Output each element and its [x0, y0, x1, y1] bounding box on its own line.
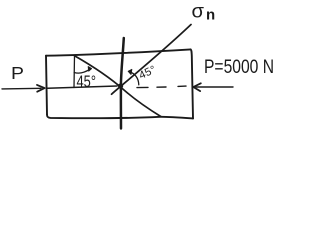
svg-text:45°: 45° [77, 73, 97, 91]
svg-text:P=5000 N: P=5000 N [204, 57, 274, 78]
svg-text:σ: σ [192, 2, 205, 23]
svg-text:P: P [11, 63, 24, 83]
svg-text:45°: 45° [137, 64, 158, 82]
svg-text:n: n [206, 7, 215, 24]
